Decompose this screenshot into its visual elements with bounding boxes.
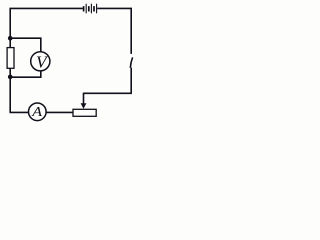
wire top-right (battery right terminal to top-right corner) bbox=[97, 7, 131, 9]
rheostat R2 body bbox=[73, 109, 96, 116]
wire right upper (top-right corner down to switch top contact) bbox=[130, 8, 132, 54]
battery GB tall plate 2 bbox=[85, 4, 87, 14]
wire top-left (battery left terminal to top-left corner) bbox=[10, 7, 83, 9]
junction node lower (left branch from voltmeter) bbox=[8, 75, 13, 80]
wire wiper vertical drop onto rheostat arrow bbox=[83, 93, 85, 105]
svg-text:A: A bbox=[31, 105, 42, 120]
wire wiper horizontal (right wire to rheostat wiper) bbox=[84, 92, 132, 94]
wire left upper (top-left corner down to resistor R1 top) bbox=[9, 8, 11, 48]
junction node upper (left branch to voltmeter) bbox=[8, 36, 13, 41]
wire right lower (switch bottom down to wiper corner) bbox=[130, 68, 132, 94]
switch S blade (open) bbox=[130, 57, 132, 67]
battery GB short plate 1 bbox=[83, 6, 85, 11]
wire bottom-left (corner to ammeter A left terminal) bbox=[10, 111, 29, 113]
wire voltmeter top branch bbox=[10, 38, 41, 52]
battery GB tall plate 6 bbox=[96, 4, 98, 14]
wire voltmeter bottom branch bbox=[10, 71, 41, 77]
rheostat wiper arrowhead bbox=[81, 103, 87, 108]
resistor R1 body bbox=[7, 48, 14, 69]
wire left lower (resistor R1 bottom to bottom-left corner) bbox=[9, 68, 11, 112]
battery GB short plate 3 bbox=[88, 6, 90, 11]
voltmeter V circle bbox=[31, 52, 50, 71]
wire bottom-mid (ammeter A right terminal to rheostat left terminal) bbox=[46, 111, 73, 113]
battery GB tall plate 4 bbox=[90, 4, 92, 14]
battery GB short plate 5 bbox=[93, 6, 95, 11]
ammeter A circle bbox=[29, 103, 47, 121]
